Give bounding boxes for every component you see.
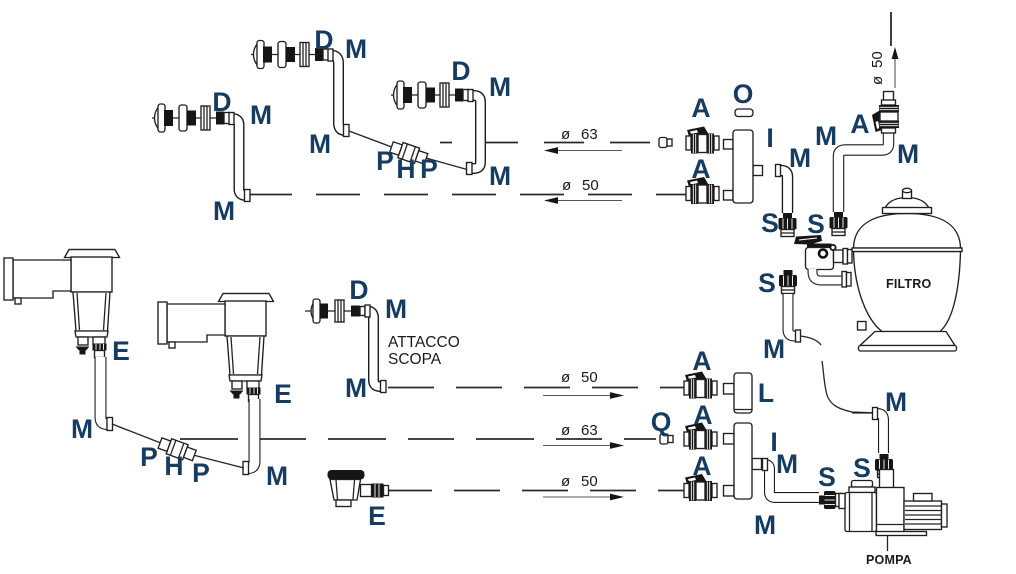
svg-text:M: M — [309, 129, 331, 159]
union S below multiport valve — [779, 270, 797, 294]
wire: pump leader line — [887, 536, 889, 552]
filter lid — [884, 198, 930, 213]
collar jet2 top — [328, 49, 333, 61]
svg-text:50: 50 — [581, 369, 598, 386]
skimmer1 pipe and elbow — [101, 357, 113, 424]
upper connector to tank — [834, 250, 844, 263]
union S below collector elbow — [779, 213, 797, 237]
skimmer 1 — [4, 250, 120, 358]
skimmer2 pipe and elbow — [244, 399, 255, 468]
svg-text:63: 63 — [581, 126, 598, 143]
reducer Q — [660, 434, 673, 444]
svg-text:M: M — [385, 294, 407, 324]
svg-text:E: E — [112, 336, 130, 366]
svg-text:D: D — [349, 275, 368, 305]
drain outlet — [361, 485, 372, 497]
svg-text:M: M — [345, 34, 367, 64]
collar vacuum top — [365, 305, 370, 317]
drain foot — [336, 500, 351, 507]
ball valve A top o63 — [686, 127, 719, 154]
arrow right row3 — [543, 496, 610, 498]
svg-text:50: 50 — [581, 473, 598, 490]
svg-text:A: A — [692, 346, 711, 376]
collector I2 stub left bottom — [724, 486, 735, 497]
wire: vertical waste line top right — [890, 12, 892, 46]
svg-text:M: M — [489, 72, 511, 102]
collector L body — [734, 373, 752, 413]
svg-text:I: I — [766, 123, 773, 153]
wall fitting — [305, 299, 365, 323]
filter knob — [903, 191, 912, 199]
jet fitting group 1 — [152, 104, 230, 132]
wire: top circuit o50 dashed line — [248, 194, 686, 196]
pump discharge elbow pipe — [874, 414, 884, 454]
collar jet2 bottom — [344, 125, 350, 137]
vacuum elbow pipe — [365, 311, 386, 387]
svg-text:S: S — [807, 209, 825, 239]
skimmer 2 — [158, 294, 274, 402]
arrow right row1 — [543, 395, 610, 397]
collar jet1 bottom — [245, 190, 251, 202]
ball valve A top o50 — [686, 177, 719, 204]
arrow up top right — [894, 58, 896, 88]
svg-text:M: M — [754, 510, 776, 540]
wire: diagonal skimmer1 to union — [112, 424, 162, 444]
svg-text:H: H — [396, 154, 415, 184]
pump motor — [904, 501, 942, 530]
elbow pipe collector to pump — [764, 465, 819, 498]
pump base — [876, 532, 927, 536]
pipe elbow below union — [788, 294, 798, 336]
svg-text:M: M — [897, 139, 919, 169]
wire: diagonal jet2 to union — [349, 131, 393, 148]
svg-text:SCOPA: SCOPA — [388, 351, 442, 368]
pipe loop from valve A3 down to filter valve — [839, 133, 889, 212]
wire: bottom circuit o50 drain dashed line — [386, 490, 684, 492]
union S pump discharge — [875, 454, 893, 478]
svg-text:P: P — [192, 458, 210, 488]
wire: flexible hose from elbow — [800, 336, 821, 345]
svg-text:M: M — [815, 121, 837, 151]
collar jet3 top — [468, 90, 473, 102]
elbow and pipe jet3 — [467, 96, 481, 169]
wire: line into pump discharge elbow — [852, 412, 874, 414]
ball valve A row3 — [684, 474, 717, 501]
svg-text:M: M — [885, 387, 907, 417]
svg-text:ATTACCO: ATTACCO — [388, 334, 460, 351]
svg-text:POMPA: POMPA — [866, 553, 912, 567]
svg-text:A: A — [691, 93, 710, 123]
jet fitting group 3 — [391, 81, 469, 109]
svg-text:S: S — [853, 453, 871, 483]
union S pump inlet — [819, 491, 843, 509]
multiport valve body — [806, 248, 834, 270]
svg-text:A: A — [691, 154, 710, 184]
pump inlet stub — [839, 494, 845, 509]
svg-text:M: M — [789, 143, 811, 173]
filter seam band — [852, 248, 962, 252]
union P-H-P top — [389, 139, 429, 166]
svg-text:63: 63 — [581, 422, 598, 439]
elbow and pipe jet1 — [229, 119, 250, 196]
collar — [796, 330, 801, 342]
wire: diagonal union to jet3 — [426, 158, 467, 170]
drain cap — [328, 470, 365, 480]
svg-text:P: P — [420, 154, 438, 184]
multiport valve top plate — [807, 244, 832, 249]
pump discharge stub — [880, 470, 894, 489]
reducer on o63 top line — [659, 138, 672, 148]
vent screw — [830, 245, 835, 250]
svg-text:ø: ø — [561, 422, 570, 439]
svg-text:ø: ø — [561, 369, 570, 386]
svg-text:O: O — [733, 79, 754, 109]
collar skimmer2 elbow — [243, 462, 249, 475]
stub above valve A3 — [884, 92, 894, 101]
collector I stub right — [753, 166, 763, 176]
collector I2 stub left top — [724, 434, 735, 445]
filter tank dome — [854, 214, 961, 249]
collector I2 body — [734, 423, 752, 499]
cap O — [735, 109, 753, 117]
collector I stub left top — [724, 140, 734, 150]
ball valve A3 vertical — [872, 100, 899, 133]
union P-H-P bottom — [157, 435, 197, 463]
pump strainer lid — [852, 481, 873, 488]
svg-text:A: A — [692, 451, 711, 481]
svg-text:A: A — [693, 400, 712, 430]
svg-text:L: L — [758, 378, 774, 408]
arrow right row2 — [543, 445, 610, 447]
arrow left o50 — [557, 200, 622, 202]
collar vacuum bottom — [381, 381, 387, 393]
collar — [763, 459, 768, 471]
svg-text:P: P — [376, 146, 394, 176]
wire: top circuit o63 dashed line — [440, 142, 657, 144]
pump motor cap — [942, 504, 948, 527]
svg-text:S: S — [818, 462, 836, 492]
svg-text:ø50: ø50 — [869, 51, 886, 85]
filter base — [860, 332, 955, 346]
svg-text:E: E — [368, 501, 386, 531]
arrow left o63 — [557, 150, 622, 152]
filter drain stub — [858, 322, 867, 331]
svg-text:A: A — [850, 109, 869, 139]
svg-text:ø: ø — [561, 473, 570, 490]
svg-text:H: H — [164, 451, 183, 481]
collector I stub left bottom — [724, 191, 734, 201]
collar — [776, 165, 781, 177]
svg-text:M: M — [213, 196, 235, 226]
collar skimmer1 elbow — [107, 418, 113, 431]
wire: bottom circuit o50 skimmer dashed line — [388, 387, 684, 389]
lower connector pipe — [813, 269, 843, 281]
elbow pipe from collector to valve (M/S) — [777, 171, 788, 214]
pump strainer pot — [845, 493, 877, 532]
union S below loop — [830, 212, 848, 236]
ball valve A row1 — [684, 372, 717, 399]
svg-text:S: S — [758, 268, 776, 298]
svg-text:M: M — [763, 334, 785, 364]
svg-text:M: M — [250, 100, 272, 130]
svg-text:ø: ø — [562, 177, 571, 194]
svg-text:P: P — [140, 442, 158, 472]
svg-text:M: M — [489, 161, 511, 191]
wire: diagonal union to skimmer2 — [195, 456, 244, 469]
wire: bottom circuit o63 dashed line — [180, 438, 656, 440]
svg-text:Q: Q — [651, 407, 672, 437]
svg-text:50: 50 — [582, 177, 599, 194]
svg-text:M: M — [776, 449, 798, 479]
sight glass — [819, 250, 827, 258]
collector I2 stub right — [752, 459, 762, 470]
collector L stub — [724, 384, 735, 395]
collar jet1 top — [229, 113, 234, 125]
drain adapter E — [372, 484, 384, 498]
jet fitting group 2 — [251, 41, 329, 69]
svg-text:M: M — [71, 414, 93, 444]
drain body — [330, 480, 361, 501]
collar pump elbow — [873, 408, 878, 420]
pump terminal box — [914, 494, 933, 502]
svg-text:ø: ø — [561, 126, 570, 143]
svg-text:FILTRO: FILTRO — [886, 277, 931, 291]
svg-text:D: D — [451, 56, 470, 86]
svg-text:M: M — [345, 373, 367, 403]
collar jet3 bottom — [467, 163, 473, 175]
collector I body — [733, 130, 753, 203]
multiport valve handle — [794, 235, 822, 245]
svg-text:M: M — [266, 461, 288, 491]
elbow and pipe jet2 — [328, 55, 349, 131]
svg-text:E: E — [274, 379, 292, 409]
filter tank body — [854, 252, 961, 332]
ball valve A row2 — [684, 423, 717, 450]
pump body — [877, 488, 905, 534]
svg-text:S: S — [761, 208, 779, 238]
